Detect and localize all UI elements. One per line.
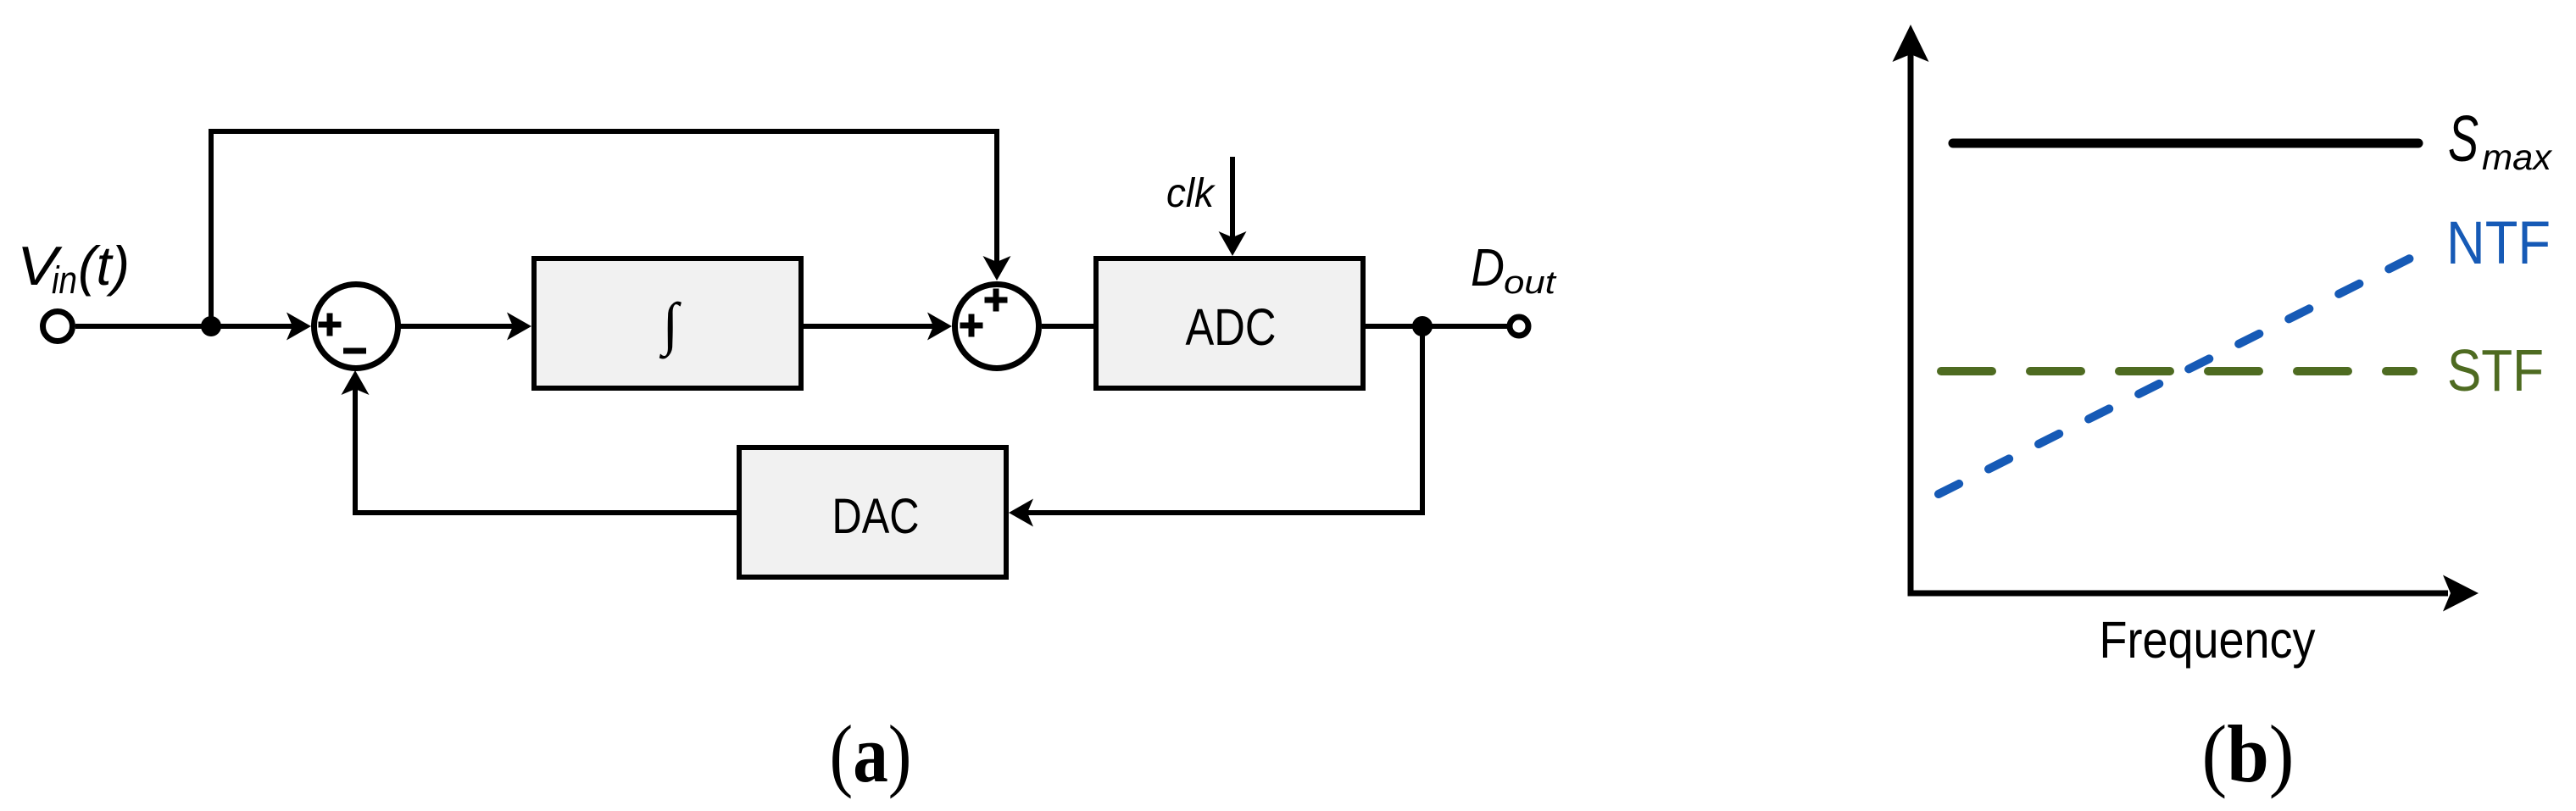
svg-text:S: S bbox=[2448, 103, 2479, 175]
svg-text:(b): (b) bbox=[2202, 708, 2295, 799]
svg-text:out: out bbox=[1504, 265, 1557, 301]
svg-text:D: D bbox=[1471, 239, 1505, 297]
svg-text:ADC: ADC bbox=[1186, 298, 1277, 356]
svg-text:max: max bbox=[2482, 137, 2553, 178]
svg-text:DAC: DAC bbox=[832, 489, 920, 544]
svg-text:(a): (a) bbox=[830, 708, 912, 799]
svg-text:(t): (t) bbox=[78, 235, 130, 297]
svg-text:STF: STF bbox=[2447, 337, 2544, 403]
svg-text:Frequency: Frequency bbox=[2100, 611, 2316, 669]
svg-text:NTF: NTF bbox=[2446, 210, 2551, 277]
svg-text:clk: clk bbox=[1166, 171, 1216, 216]
svg-text:in: in bbox=[52, 258, 77, 302]
